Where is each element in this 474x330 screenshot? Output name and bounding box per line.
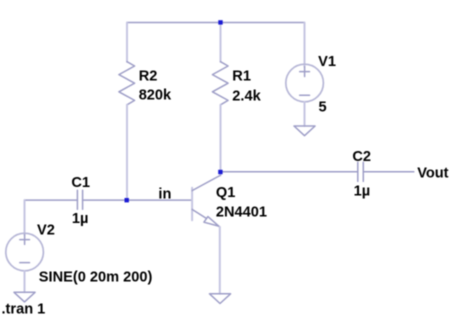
- transistor Q1: [192, 175, 220, 227]
- wire node in down to V2: [24, 200, 26, 235]
- svg-text:1µ: 1µ: [354, 184, 371, 200]
- wire top rail to V1: [304, 23, 306, 67]
- ground below V1: [294, 126, 315, 136]
- junction node in: [125, 198, 129, 202]
- svg-text:820k: 820k: [139, 88, 172, 104]
- wire collector node to C2: [220, 171, 357, 173]
- svg-text:R1: R1: [232, 69, 251, 85]
- svg-text:.tran 1: .tran 1: [2, 302, 46, 318]
- svg-text:SINE(0 20m 200): SINE(0 20m 200): [39, 270, 153, 286]
- capacitor C2: [358, 162, 364, 181]
- wire C2 to Vout: [363, 171, 414, 173]
- wire R2 bottom lead to node in: [126, 105, 128, 200]
- svg-text:2N4401: 2N4401: [216, 204, 267, 220]
- wire R1 bottom lead to collector node: [220, 105, 222, 176]
- svg-text:2.4k: 2.4k: [232, 89, 261, 105]
- wire V2 plus to C1: [25, 199, 78, 201]
- ground below V2: [14, 292, 35, 302]
- resistor R1: [220, 23, 222, 62]
- wire top supply rail: [127, 22, 305, 24]
- svg-text:5: 5: [319, 100, 327, 116]
- svg-text:1µ: 1µ: [72, 211, 89, 227]
- svg-text:C1: C1: [71, 175, 90, 191]
- svg-text:V2: V2: [37, 223, 55, 239]
- wire V1 minus to ground: [304, 102, 306, 126]
- svg-text:V1: V1: [318, 54, 336, 70]
- junction node at top rail: [218, 20, 222, 24]
- resistor R2: [126, 23, 128, 62]
- svg-text:Q1: Q1: [216, 185, 235, 201]
- wire V2 minus to ground: [24, 271, 26, 293]
- junction node at collector: [218, 170, 222, 174]
- voltage source V1: [286, 64, 324, 102]
- ground below emitter: [210, 294, 231, 304]
- wire C1 to base of Q1 (node in): [83, 199, 193, 201]
- capacitor C1: [77, 190, 82, 209]
- wire emitter to ground: [219, 227, 221, 294]
- svg-text:C2: C2: [352, 149, 371, 165]
- svg-text:in: in: [158, 186, 171, 202]
- svg-text:R2: R2: [139, 69, 158, 85]
- svg-text:Vout: Vout: [417, 166, 448, 182]
- voltage source V2: [6, 233, 44, 271]
